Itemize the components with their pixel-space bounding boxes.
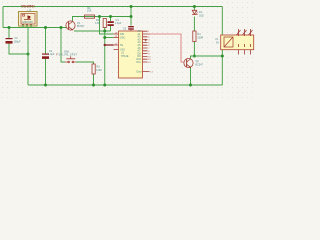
node coil junction [221,55,224,58]
svg-text:3.3M: 3.3M [96,69,102,72]
wire second rail [3,27,67,29]
wire data pink [148,34,185,62]
svg-text:100µF: 100µF [14,40,22,43]
wire module GND vertical [27,28,29,86]
capacitor C1 [6,38,13,44]
svg-text:1.0µF: 1.0µF [48,53,55,56]
IC U1 left pins [114,34,119,50]
node R4 bottom junction [193,55,196,58]
wire R3 to ground [93,74,95,85]
node LED rail junction [193,5,196,8]
wire VCC top rail [3,6,222,8]
relay K1 contacts [237,29,253,47]
svg-text:LED: LED [199,14,204,17]
wire ground rail [28,84,222,86]
svg-text:BC547: BC547 [77,25,85,28]
node C2 top junction [44,26,47,29]
relay K1 bottom pins [239,50,251,55]
wire switch branch [61,28,65,63]
wire Q1 collector [73,17,132,22]
svg-text:U2: U2 [28,9,32,13]
svg-text:D11: D11 [137,61,142,64]
node pin2 junction [103,36,106,39]
resistor R1 [85,15,95,18]
node Q2 emitter gnd junction [189,84,192,87]
grid dots [0,0,1,1]
svg-text:OSC: OSC [120,36,125,39]
svg-text:3.3K: 3.3K [95,22,100,25]
switch SW1 [65,56,76,63]
resistor R2 [103,19,106,28]
IC U1 body [119,31,143,78]
wire IC pin1 feed [100,17,114,35]
transmitter module U2 box [19,12,38,27]
IC U1 right pins [143,31,150,71]
transistor Q2 [184,58,193,67]
wire net-TE maroon [105,44,114,46]
node R3 ground junction [92,84,95,87]
capacitor C2 [42,54,49,59]
wire C2 branch [45,28,47,86]
svg-text:5V: 5V [216,41,219,44]
wire C1 to bottom [9,44,28,55]
node C3 top junction [109,15,112,18]
node TE junction [104,44,106,46]
node emitter junction [103,30,106,33]
wire LED to R4 [193,17,195,32]
node C2 bottom junction [44,84,47,87]
transistor Q1 [66,21,75,30]
wire C5 drop [130,7,132,26]
resistor R3 [92,64,95,74]
wire collector row [191,56,223,59]
svg-text:GND DATA: GND DATA [22,21,33,24]
node C1-GND junction [27,53,30,56]
relay K1 body [221,35,254,50]
IC U1 inner pin names left [120,33,125,52]
wire Q2 emitter drop [190,68,192,86]
LED D1 [192,10,198,14]
node C5 rail junction [130,5,133,8]
node switch branch junction [60,26,63,29]
svg-text:HT12E: HT12E [121,55,129,58]
node C1 top junction [8,26,11,29]
wire Q1 emitter run [74,30,111,32]
IC U1 inner pin names right [137,30,142,73]
IC U1 left pin numbers [115,32,118,45]
wire osc vertical [104,28,106,86]
wire LED drop [193,7,195,11]
svg-text:10K: 10K [87,10,92,13]
node W1 end junction [130,15,133,18]
wire R4 to collector node [193,42,195,57]
node gnd rail junction [103,84,106,87]
wire left vertical [2,7,4,28]
wire coil bottom to gnd [221,50,223,85]
svg-text:220R: 220R [198,36,204,39]
capacitor C3 [108,21,114,26]
capacitor C5 [128,26,134,30]
svg-text:1.0µF: 1.0µF [115,22,122,25]
svg-text:Dout: Dout [137,70,142,73]
svg-text:BC547: BC547 [196,63,204,66]
wire C1 branch [8,28,10,39]
node R1 out junction [98,15,101,18]
wire switch to R3 [76,62,94,64]
resistor R4 [193,31,196,42]
wire C3 stubs [110,17,112,32]
IC U1 pin4 cross mark [145,39,148,41]
relay K1 coil [224,37,233,47]
IC U1 top pin [130,30,132,31]
svg-text:TE: TE [120,44,123,47]
IC U1 right pin numbers [148,31,153,73]
svg-text:SW_PB_SPST: SW_PB_SPST [59,54,78,57]
module U2 pins [23,24,31,28]
wire relay coil drop [221,7,223,36]
wire IC pin2 feed [105,37,114,39]
